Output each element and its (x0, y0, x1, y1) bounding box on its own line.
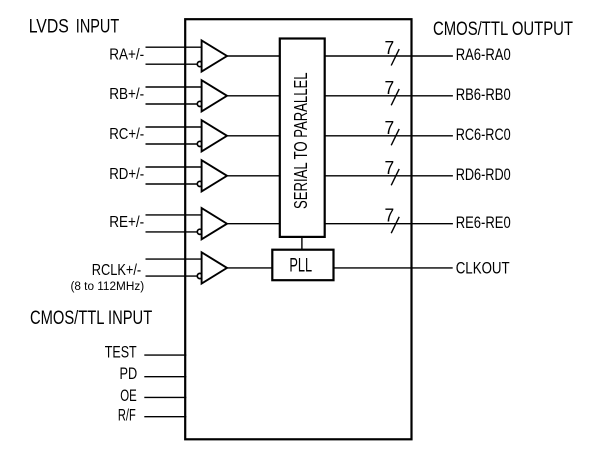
wire RC- input (146, 143, 198, 145)
svg-text:SERIAL TO PARALLEL: SERIAL TO PARALLEL (290, 72, 311, 209)
wire RA+ input (146, 46, 202, 48)
svg-text:PD: PD (120, 365, 138, 383)
wire RE+ input (146, 214, 202, 216)
wire RC6-RC0 output (325, 135, 453, 137)
svg-text:OE: OE (120, 387, 137, 405)
bus slash RB (391, 89, 399, 105)
svg-text:RD+/-: RD+/- (109, 166, 144, 183)
PLL block (272, 250, 333, 281)
svg-text:7: 7 (385, 118, 395, 138)
wire RB receiver to serial-to-parallel (227, 95, 280, 97)
wire RA receiver to serial-to-parallel (227, 55, 280, 57)
wire RD6-RD0 output (325, 175, 453, 177)
bus slash RA (391, 49, 399, 65)
inverting bubble RCLK receiver (197, 273, 202, 278)
wire CLKOUT output (334, 267, 453, 269)
wire RE- input (146, 231, 198, 233)
bus slash RD (391, 169, 399, 185)
svg-text:CLKOUT: CLKOUT (456, 259, 510, 278)
wire RD- input (146, 183, 198, 185)
wire RCLK+ input (146, 258, 202, 260)
svg-text:TEST: TEST (105, 343, 137, 361)
inverting bubble RB receiver (197, 101, 202, 106)
svg-text:RB+/-: RB+/- (109, 86, 144, 103)
wire RA6-RA0 output (325, 55, 453, 57)
wire serial-to-parallel to PLL (301, 237, 303, 250)
wire PD input (144, 376, 186, 378)
LVDS receiver RC (202, 120, 227, 151)
wire OE input (144, 396, 186, 398)
LVDS receiver RB (202, 80, 227, 111)
wire RB- input (146, 103, 198, 105)
chip outline box U1 (185, 19, 411, 439)
svg-text:RA+/-: RA+/- (109, 46, 144, 63)
svg-text:RB6-RB0: RB6-RB0 (456, 85, 511, 104)
wire RB+ input (146, 86, 202, 88)
svg-text:7: 7 (385, 158, 395, 178)
svg-text:RE6-RE0: RE6-RE0 (456, 213, 511, 232)
wire RC receiver to serial-to-parallel (227, 135, 280, 137)
svg-text:CMOS/TTL OUTPUT: CMOS/TTL OUTPUT (433, 19, 573, 40)
svg-text:INPUT: INPUT (76, 16, 119, 38)
svg-text:RA6-RA0: RA6-RA0 (456, 45, 511, 64)
wire RD receiver to serial-to-parallel (227, 175, 280, 177)
svg-text:RD6-RD0: RD6-RD0 (456, 165, 511, 184)
svg-text:RCLK+/-: RCLK+/- (92, 262, 142, 279)
LVDS receiver RE (202, 208, 227, 239)
svg-text:R/F: R/F (118, 406, 136, 424)
svg-text:CMOS/TTL INPUT: CMOS/TTL INPUT (30, 308, 152, 329)
wire RCLK receiver to PLL (227, 267, 272, 269)
bus slash RE (391, 217, 399, 233)
wire TEST input (144, 354, 186, 356)
LVDS receiver RCLK (202, 252, 227, 283)
wire RE6-RE0 output (325, 223, 453, 225)
svg-text:LVDS: LVDS (29, 16, 69, 38)
svg-text:7: 7 (385, 38, 395, 58)
svg-text:PLL: PLL (289, 254, 312, 276)
wire RA- input (146, 63, 198, 65)
serial-to-parallel block (280, 39, 325, 237)
svg-text:7: 7 (385, 206, 395, 226)
svg-text:RC6-RC0: RC6-RC0 (456, 125, 511, 144)
svg-text:7: 7 (385, 78, 395, 98)
wire R/F input (144, 416, 186, 418)
bus slash RC (391, 129, 399, 145)
LVDS receiver RD (202, 160, 227, 191)
wire RB6-RB0 output (325, 95, 453, 97)
svg-text:(8 to 112MHz): (8 to 112MHz) (70, 279, 144, 293)
svg-text:RC+/-: RC+/- (109, 126, 144, 143)
inverting bubble RD receiver (197, 181, 202, 186)
svg-text:RE+/-: RE+/- (109, 214, 144, 231)
wire RD+ input (146, 166, 202, 168)
LVDS receiver RA (202, 40, 227, 71)
inverting bubble RE receiver (197, 229, 202, 234)
wire RC+ input (146, 126, 202, 128)
inverting bubble RA receiver (197, 62, 202, 67)
wire RCLK- input (146, 275, 198, 277)
wire RE receiver to serial-to-parallel (227, 223, 280, 225)
inverting bubble RC receiver (197, 141, 202, 146)
